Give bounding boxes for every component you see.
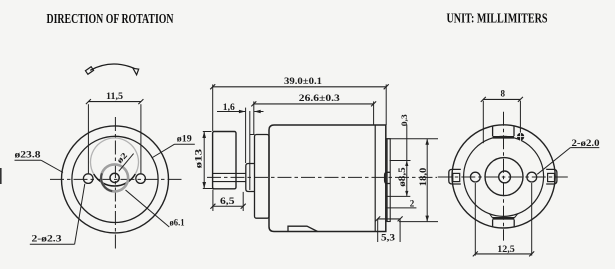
svg-text:5,3: 5,3: [381, 232, 396, 242]
svg-text:18,0: 18,0: [418, 167, 428, 186]
svg-text:26.6±0.3: 26.6±0.3: [299, 93, 341, 103]
svg-text:1,6: 1,6: [223, 102, 236, 112]
svg-text:ø13: ø13: [193, 148, 203, 168]
svg-text:12,5: 12,5: [497, 244, 515, 254]
svg-text:ø23.8: ø23.8: [15, 149, 42, 159]
svg-text:2-ø2.3: 2-ø2.3: [32, 233, 63, 243]
svg-text:8: 8: [501, 89, 506, 99]
svg-text:39.0±0.1: 39.0±0.1: [284, 76, 323, 86]
svg-text:2-ø2.0: 2-ø2.0: [572, 138, 601, 148]
svg-text:ø6.1: ø6.1: [170, 217, 185, 227]
svg-text:ø8,5: ø8,5: [397, 167, 407, 187]
svg-text:DIRECTION OF ROTATION: DIRECTION OF ROTATION: [47, 12, 174, 27]
svg-text:UNIT: MILLIMITERS: UNIT: MILLIMITERS: [447, 12, 548, 27]
svg-text:ø19: ø19: [177, 133, 193, 143]
svg-text:6,5: 6,5: [220, 196, 235, 206]
svg-text:2: 2: [410, 198, 415, 208]
svg-text:0,3: 0,3: [399, 114, 409, 126]
svg-text:11,5: 11,5: [106, 91, 124, 101]
